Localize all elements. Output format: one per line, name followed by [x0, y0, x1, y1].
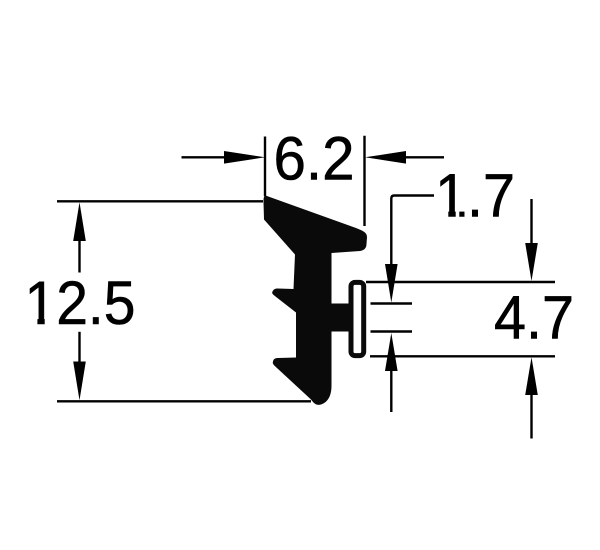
bottom extension line: [370, 355, 555, 357]
right arrow line: [405, 156, 444, 158]
up arrow with tail: [385, 333, 398, 371]
top extension line: [57, 200, 263, 202]
upper extension tick: [371, 302, 413, 304]
button: rounded-rect outline at right of stub: [351, 282, 364, 355]
dimension line upper segment with up arrow: [78, 238, 80, 273]
down arrow: [385, 264, 398, 303]
svg-text:4.7: 4.7: [494, 283, 574, 351]
left arrow line: [182, 156, 229, 158]
left extension line: [264, 137, 266, 197]
svg-text:12.5: 12.5: [25, 269, 136, 337]
svg-text:1.7: 1.7: [435, 161, 515, 229]
bottom extension line: [57, 400, 311, 402]
gasket profile (black cross-section): [264, 195, 368, 404]
leader: corner line to text: [391, 196, 434, 265]
top extension line: [366, 281, 555, 283]
top arrow with tail: [530, 199, 532, 244]
bottom arrow with tail: [525, 357, 538, 395]
dimension line lower segment with down arrow: [78, 332, 80, 364]
right extension line: [363, 136, 365, 226]
lower extension tick: [371, 330, 413, 332]
svg-text:6.2: 6.2: [274, 124, 355, 192]
